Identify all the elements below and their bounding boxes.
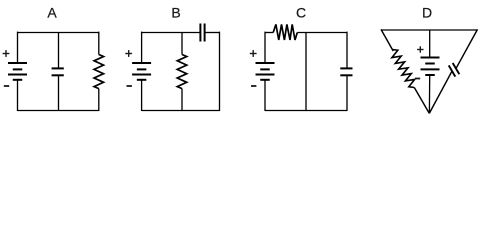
wire: circuit A top <box>18 32 99 34</box>
svg-text:B: B <box>171 5 180 21</box>
battery (circuit D) <box>421 58 440 76</box>
svg-text:D: D <box>422 5 432 21</box>
capacitor (circuit B) <box>200 24 204 42</box>
wire: circuit D triangle top edge <box>381 29 478 31</box>
wire: circuit D right edge lower (capacitor to bottom vertex) <box>429 71 452 113</box>
wire: circuit A left lower (battery to bottom wire) <box>17 80 19 111</box>
svg-text:A: A <box>47 5 57 21</box>
wire: circuit C bottom <box>265 110 347 112</box>
battery (circuit A) <box>8 63 27 80</box>
wire: circuit A bottom <box>18 110 99 112</box>
minus sign (circuit B battery) <box>127 85 132 87</box>
wire: circuit B right <box>219 32 221 111</box>
wire: circuit C top right (resistor to corner) <box>297 32 347 34</box>
minus sign (circuit D battery) <box>415 78 420 80</box>
plus sign (circuit A battery) <box>3 50 10 57</box>
resistor (circuit A) <box>94 55 104 89</box>
capacitor (circuit D) <box>449 63 460 77</box>
wire: circuit A middle branch lower <box>58 75 60 110</box>
wire: circuit B bottom <box>142 110 220 112</box>
wire: circuit D right edge upper (vertex to capacitor) <box>456 29 477 68</box>
plus sign (circuit D battery) <box>417 46 423 52</box>
wire: circuit B top right (capacitor to corner) <box>205 32 220 34</box>
wire: circuit B left upper (top wire to battery) <box>141 32 143 63</box>
wire: circuit C middle branch <box>305 33 307 111</box>
wire: circuit D left edge upper (vertex to resistor) <box>381 29 393 51</box>
wire: circuit D middle branch lower (battery to bottom vertex) <box>428 75 430 113</box>
plus sign (circuit B battery) <box>125 50 132 57</box>
wire: circuit B middle branch lower <box>181 89 183 111</box>
capacitor (circuit C) <box>340 68 352 75</box>
wire: circuit D left edge lower (resistor to bottom vertex) <box>414 88 429 114</box>
minus sign (circuit C battery) <box>251 85 256 87</box>
wire: circuit A left upper (top wire to battery) <box>17 32 19 63</box>
wire: circuit B left lower (battery to bottom wire) <box>141 80 143 111</box>
plus sign (circuit C battery) <box>250 50 257 57</box>
wire: circuit A right upper <box>98 32 100 55</box>
wire: circuit B top left (corner to capacitor) <box>142 32 201 34</box>
battery (circuit B) <box>132 63 151 80</box>
wire: circuit C right lower (capacitor to bottom wire) <box>346 75 348 111</box>
battery (circuit C) <box>256 63 275 80</box>
minus sign (circuit A battery) <box>4 85 9 87</box>
wire: circuit C top left (corner to resistor) <box>265 32 273 34</box>
wire: circuit A right lower <box>98 89 100 111</box>
wire: circuit D middle branch upper (top edge to battery) <box>429 30 431 58</box>
wire: circuit A middle branch upper <box>58 33 60 69</box>
wire: circuit C left upper (top wire to battery) <box>264 32 266 63</box>
resistor (circuit D) <box>392 50 415 88</box>
resistor (circuit C) <box>273 24 297 40</box>
svg-text:C: C <box>296 5 306 21</box>
capacitor (circuit A) <box>52 68 64 75</box>
wire: circuit C right upper (top wire to capacitor) <box>346 32 348 69</box>
wire: circuit B middle branch upper <box>181 33 183 55</box>
wire: circuit C left lower (battery to bottom wire) <box>264 80 266 111</box>
resistor (circuit B) <box>177 55 187 89</box>
